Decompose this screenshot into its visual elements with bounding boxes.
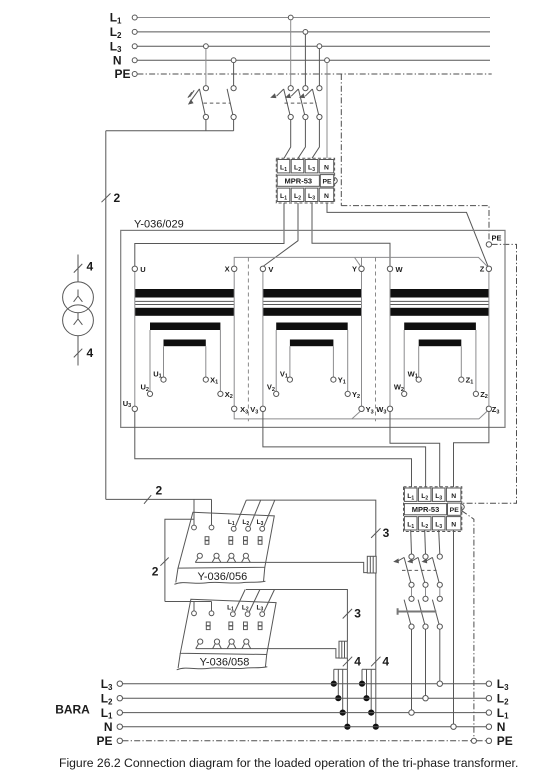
- wire U1-L2 to terminal V: [264, 203, 298, 266]
- Q2 arrowhead L1: [270, 93, 276, 98]
- relay MPR-53 U1 outline: [276, 158, 334, 203]
- wire V3 to U2-L2: [263, 412, 426, 488]
- rotor legs 058-4: [242, 644, 251, 649]
- terminal PE transformer: [486, 242, 491, 247]
- MPR-53 U2 name cell: [404, 504, 446, 515]
- wire riser X-X3: [233, 271, 235, 406]
- MPR-53 U1 terminal box bottom: [305, 188, 318, 201]
- wire fan bar 058: [334, 668, 348, 670]
- contact bottom Q3 x=439.8: [437, 582, 442, 587]
- wire L1 diagonal 058: [235, 590, 246, 613]
- wire Q1 output pair horizontal: [106, 130, 234, 132]
- input contact 2 058: [209, 611, 214, 616]
- rotor legs 056-4: [242, 558, 251, 563]
- transformer core 2 (V-Y): [263, 289, 362, 298]
- svg-text:Z3: Z3: [492, 405, 500, 415]
- slash 2-conductor at 056: [144, 495, 151, 504]
- contact bottom Q2 L1: [288, 114, 293, 119]
- wire U2 output to Q3 x=439.8: [439, 530, 440, 554]
- svg-text:X1: X1: [210, 375, 218, 385]
- terminal U: [132, 266, 137, 271]
- junction 058-L2: [335, 695, 341, 701]
- terminal W2: [402, 391, 407, 396]
- bus L3 top: [137, 45, 490, 47]
- wire U2 output to Q3 x=425.5: [424, 530, 427, 554]
- transformer core 3 (W-Z): [390, 289, 489, 298]
- wire L1 diagonal 056: [235, 500, 246, 527]
- svg-text:N: N: [451, 522, 456, 529]
- rotor legs 056-3: [227, 558, 236, 563]
- wire riser W-W3: [389, 271, 391, 406]
- terminal circle N top: [132, 58, 137, 63]
- tap changer Y-036/056 body: [178, 512, 274, 568]
- wire 058 fan to L3: [333, 669, 335, 683]
- bus L2 top: [137, 31, 490, 33]
- terminal Y2: [345, 391, 350, 396]
- wire Z2 lead: [475, 330, 477, 391]
- input contact 1 058: [192, 611, 197, 616]
- svg-text:Y3: Y3: [366, 405, 374, 415]
- switch blade Q1 pole x=205.9: [199, 89, 205, 115]
- svg-text:PE: PE: [450, 507, 460, 514]
- node tap N for Q1: [231, 58, 236, 63]
- svg-text:W2: W2: [394, 383, 404, 393]
- wire U1-N to terminal Z: [327, 203, 488, 266]
- svg-text:X2: X2: [225, 390, 233, 400]
- svg-text:PE: PE: [322, 179, 332, 186]
- svg-text:X3: X3: [240, 405, 248, 415]
- MPR-53 U1 terminal box bottom: [319, 188, 334, 201]
- transformer T1 enclosure: [121, 230, 505, 427]
- wire tap N down to Q1: [233, 63, 235, 86]
- PE hook at U1: [334, 177, 337, 184]
- svg-text:4: 4: [87, 346, 94, 360]
- Q3 arrow shaft x=411.5: [398, 557, 404, 561]
- switch blade Q4 x=411.5: [404, 600, 411, 625]
- wire V1 lead: [289, 346, 291, 377]
- terminal circle PE top: [132, 72, 137, 77]
- svg-text:N: N: [497, 720, 506, 734]
- terminal Z2: [473, 391, 478, 396]
- slash 4-conductor top: [74, 264, 83, 273]
- node tap L3 for Q2: [317, 44, 322, 49]
- contact bottom Q1 pole x=233.6: [231, 114, 236, 119]
- Q3 arrowhead: [407, 558, 413, 563]
- svg-text:L1: L1: [101, 706, 113, 721]
- terminal Y: [359, 266, 364, 271]
- wire fan bar 056: [362, 668, 376, 670]
- wire U1-L3 to terminal W: [312, 203, 390, 266]
- svg-text:L1: L1: [497, 706, 509, 721]
- rotor contact 1 058: [198, 639, 203, 644]
- contact stack 058 x=245.4: [244, 622, 248, 626]
- wire star branch to Y: [355, 257, 361, 266]
- slash 4-conductor 058: [343, 657, 352, 667]
- Q1 actuator flag line 2: [188, 92, 192, 98]
- switch blade Q2 L2: [298, 89, 304, 115]
- svg-text:L1: L1: [228, 519, 235, 527]
- wire tap L1 down to Q2: [290, 20, 292, 86]
- Q2 arrowhead L3: [299, 93, 305, 98]
- wire Q2 L1 to MPR-53 U1: [284, 120, 291, 159]
- svg-text:N: N: [324, 193, 329, 200]
- switch blade Q2 L1: [284, 89, 290, 115]
- wire L2 diagonal 056: [250, 500, 261, 527]
- wire 056 fan to L2: [366, 669, 368, 698]
- wire 056 fan to L1: [370, 669, 372, 712]
- MPR-53 U2 terminal box top L<tspa: [418, 488, 431, 501]
- svg-text:L2: L2: [242, 519, 249, 527]
- wire U2 N to bus N: [453, 530, 455, 724]
- svg-text:N: N: [104, 720, 113, 734]
- bus N top: [137, 59, 490, 61]
- wire N down to MPR-53 U1: [326, 63, 328, 159]
- terminal circle L2 bottom left: [117, 696, 122, 701]
- bus L2 bottom: [123, 697, 487, 699]
- terminal X2: [218, 391, 223, 396]
- contact top Q2 L3: [317, 86, 322, 91]
- wire 056 fan to L3: [361, 669, 363, 683]
- Q1 actuator arrowhead: [188, 99, 194, 104]
- contact top Q3 x=425.5: [423, 554, 428, 559]
- tap changer Y-036/058 body: [180, 599, 276, 654]
- switch blade Q3 x=425.5: [418, 557, 425, 582]
- MPR-53 U1 terminal box top N: [319, 160, 334, 173]
- terminal V2: [274, 391, 279, 396]
- svg-text:Y2: Y2: [352, 390, 360, 400]
- phase contact L3 058: [260, 612, 265, 617]
- PE drop to U1: [340, 74, 342, 206]
- junction 058-L3: [331, 681, 337, 687]
- phase contact L1 058: [231, 612, 236, 617]
- terminal Z: [486, 266, 491, 271]
- svg-text:Figure 26.2 Connection diagram: Figure 26.2 Connection diagram for the l…: [59, 756, 518, 770]
- svg-text:U1: U1: [153, 369, 161, 379]
- contact stack 056 x=245.4: [244, 537, 248, 541]
- wire W1 lead: [418, 346, 420, 377]
- wire U1 lead: [163, 346, 165, 377]
- terminal circle L3 top: [132, 44, 137, 49]
- slash 3-conductor 056: [371, 528, 380, 538]
- svg-text:V3: V3: [250, 405, 258, 415]
- Q2 arrow shaft L2: [291, 89, 298, 96]
- switch blade Q4 x=439.8: [432, 600, 439, 625]
- wire riser V-V3: [262, 271, 264, 406]
- bus PE bottom end: [477, 740, 487, 742]
- contact bottom Q4 x=411.5: [409, 624, 414, 629]
- svg-text:PE: PE: [492, 234, 502, 243]
- node tap N for U1: [325, 58, 330, 63]
- contact stack 056 x=230.8: [229, 537, 233, 541]
- MPR-53 U2 terminal box top L<tspa: [404, 488, 417, 501]
- slash 4-conductor bottom: [74, 349, 83, 358]
- wire 2-pair into Y-036/058: [165, 601, 212, 603]
- terminal W: [387, 266, 392, 271]
- Q3 arrowhead: [393, 558, 399, 563]
- connection PE bottom: [471, 738, 476, 743]
- wire rotor rail 056 to connector X1: [195, 562, 367, 572]
- MPR-53 U2 terminal box top N: [446, 488, 461, 501]
- svg-text:U3: U3: [123, 399, 131, 409]
- wire star branch to Y3: [352, 412, 360, 419]
- svg-text:2: 2: [152, 565, 159, 579]
- rotor contact 2 058: [214, 639, 219, 644]
- svg-text:Y-036/056: Y-036/056: [198, 571, 248, 583]
- terminal U2: [147, 391, 152, 396]
- MPR-53 U1 terminal box top L<tspa: [305, 160, 318, 173]
- contact top Q3 x=439.8: [437, 554, 442, 559]
- meter M1 circle 2: [63, 305, 94, 336]
- svg-text:4: 4: [382, 654, 389, 668]
- wire 4-bundle 058 down: [346, 658, 348, 669]
- Q3 arrowhead: [422, 558, 428, 563]
- MPR-53 U2 terminal box bottom: [404, 517, 417, 530]
- connection Q4 pole1 L1: [409, 710, 414, 715]
- terminal Y1: [331, 377, 336, 382]
- tap changer Y-036/056 wavy bottom: [174, 581, 265, 584]
- svg-text:MPR-53: MPR-53: [285, 177, 313, 186]
- wire V2 lead: [275, 330, 277, 391]
- wire 058 fan to N: [346, 669, 348, 726]
- wire tap L2 down to Q2: [304, 34, 306, 85]
- svg-text:L2: L2: [497, 692, 509, 707]
- wire U1-L1 to terminal U: [135, 203, 284, 266]
- PE drop to bottom bus: [462, 511, 474, 738]
- terminal U3: [132, 406, 137, 411]
- Q4 coupling bar: [398, 608, 437, 614]
- contact bottom Q3 x=411.5: [409, 582, 414, 587]
- bus L1 bottom: [123, 712, 487, 714]
- svg-text:L2: L2: [101, 692, 113, 707]
- input contact 1 056: [192, 525, 197, 530]
- wire Q3-Q4 link x=411.5: [411, 587, 413, 596]
- junction 056-L3: [359, 681, 365, 687]
- terminal X1: [203, 377, 208, 382]
- svg-text:3: 3: [383, 526, 390, 540]
- rotor contact 1 056: [197, 553, 202, 558]
- svg-text:Y: Y: [352, 265, 357, 274]
- wire Q2 L3 to MPR-53 U1: [312, 120, 319, 159]
- slash 2-conductor mark: [102, 193, 111, 202]
- wire Y1 lead: [332, 346, 334, 377]
- wire drop input1 056: [193, 499, 195, 525]
- svg-text:L1: L1: [227, 604, 234, 612]
- wire W2 lead: [403, 330, 405, 391]
- wire Q3-Q4 link x=425.5: [425, 587, 427, 596]
- svg-text:BARA: BARA: [55, 703, 90, 717]
- wire Y2 lead: [347, 330, 349, 391]
- terminal V1: [287, 377, 292, 382]
- svg-text:Z2: Z2: [480, 390, 488, 400]
- wire 4-bundle 056 down: [375, 573, 377, 669]
- svg-text:2: 2: [156, 483, 163, 497]
- tap changer Y-036/056 front face: [176, 567, 265, 582]
- terminal circle L3 bottom left: [117, 681, 122, 686]
- connector X1: [367, 556, 376, 573]
- rotor legs 056-2: [212, 558, 221, 563]
- wire Q4 pole1 to bus L1: [411, 629, 413, 710]
- svg-text:PE: PE: [96, 734, 112, 748]
- svg-text:L3: L3: [110, 39, 122, 54]
- contact top Q2 L2: [303, 86, 308, 91]
- terminal circle N bottom right: [486, 724, 491, 729]
- terminal U1: [161, 377, 166, 382]
- node tap L3 for Q1: [204, 44, 209, 49]
- wire tap L3 down to Q2: [318, 49, 320, 86]
- phase contact L2 058: [245, 612, 250, 617]
- MPR-53 U2 terminal box bottom: [432, 517, 445, 530]
- wire Q1 pole2 down: [233, 120, 235, 131]
- MPR-53 U2 terminal box bottom: [418, 517, 431, 530]
- terminal circle PE bottom right: [486, 738, 491, 743]
- connection N bottom: [451, 724, 456, 729]
- svg-text:Z1: Z1: [466, 375, 474, 385]
- Q1 coupling dashed: [204, 102, 231, 104]
- svg-text:4: 4: [87, 259, 94, 273]
- winding glyph 2: [74, 313, 83, 325]
- wire L3 diagonal 058: [264, 590, 275, 613]
- winding glyph 1: [74, 290, 83, 302]
- wire Z3 to U2-N: [454, 412, 489, 488]
- tap changer Y-036/058 wavy bottom: [177, 667, 268, 670]
- svg-text:V1: V1: [280, 369, 288, 379]
- svg-text:L3: L3: [101, 677, 113, 692]
- wire riser Y-Y3: [361, 271, 363, 406]
- phase contact L1 056: [231, 526, 236, 531]
- terminal circle PE bottom left: [117, 738, 122, 743]
- Q2 coupling dashed: [285, 102, 317, 104]
- wire drop input1 058: [193, 602, 195, 611]
- svg-text:4: 4: [354, 654, 361, 668]
- wire W3 to U2-L3: [390, 412, 440, 488]
- slash 4-conductor 056: [371, 657, 380, 667]
- svg-text:N: N: [451, 493, 456, 500]
- terminal circle N bottom left: [117, 724, 122, 729]
- svg-text:MPR-53: MPR-53: [412, 505, 440, 514]
- svg-text:Z: Z: [480, 265, 485, 274]
- Q3 arrow shaft x=439.8: [426, 557, 432, 561]
- contact stack 058 x=230.8: [229, 622, 233, 626]
- contact stack 056 x=260.1: [258, 537, 262, 541]
- wire 058 fan to L2: [337, 669, 339, 698]
- rotor legs 058-3: [227, 644, 236, 649]
- wire Q2 L2 to MPR-53 U1: [298, 120, 305, 159]
- junction 056-L1: [368, 710, 374, 716]
- MPR-53 U2 terminal box top L<tspa: [432, 488, 445, 501]
- rotor contact 2 056: [214, 553, 219, 558]
- rotor leg 058-1: [196, 644, 199, 649]
- svg-text:PE: PE: [497, 734, 513, 748]
- Q2 arrow shaft L1: [277, 89, 284, 96]
- svg-text:2: 2: [114, 191, 121, 205]
- wire U3 to U2-L1: [135, 412, 412, 488]
- contact bottom Q4 x=425.5: [423, 624, 428, 629]
- wire X2 lead: [219, 330, 221, 391]
- wire 3-bundle 056 to connector: [246, 500, 375, 556]
- wire X1 lead: [205, 346, 207, 377]
- junction 058-L1: [340, 710, 346, 716]
- connection Q4 pole3 L3: [437, 681, 442, 686]
- tap changer Y-036/058 front face: [178, 653, 267, 668]
- wire L2 diagonal 058: [249, 590, 260, 613]
- bus L3 bottom: [123, 683, 487, 685]
- wire 056 fan to N: [375, 669, 377, 726]
- node tap L2 for Q2: [303, 30, 308, 35]
- contact top Q1 pole x=233.6: [231, 86, 236, 91]
- wire Z1 lead: [460, 346, 462, 377]
- Q3 arrow shaft x=425.5: [412, 557, 418, 561]
- terminal X: [232, 266, 237, 271]
- wire U2 lead: [149, 330, 151, 391]
- contact stack 056 x=207.0: [205, 537, 209, 541]
- connector X2: [339, 641, 347, 658]
- svg-text:L3: L3: [257, 519, 264, 527]
- wire meter bottom: [77, 336, 79, 366]
- rotor contact 3 058: [229, 639, 234, 644]
- wire 2-conductor left drop: [105, 131, 107, 500]
- terminal V: [260, 266, 265, 271]
- wire riser U-U3: [134, 271, 136, 406]
- contact top Q4 x=439.8: [437, 596, 442, 601]
- wire 3-bundle 058 to connector: [246, 590, 348, 642]
- rotor legs 058-2: [213, 644, 222, 649]
- wire star top X-Y-Z: [234, 257, 487, 266]
- svg-text:L3: L3: [257, 604, 264, 612]
- terminal W3: [387, 406, 392, 411]
- wire 058 fan to L1: [342, 669, 344, 712]
- terminal X3: [232, 406, 237, 411]
- transformer core 1 (U-X): [135, 289, 234, 298]
- wire drop input2 058: [211, 602, 213, 611]
- slash 3-conductor 058: [343, 609, 352, 619]
- svg-text:W1: W1: [408, 369, 418, 379]
- junction 058-N: [344, 724, 350, 730]
- slash 2-conductor 058: [160, 558, 168, 566]
- contact top Q3 x=411.5: [409, 554, 414, 559]
- Q2 arrowhead L2: [285, 93, 291, 98]
- MPR-53 U2 terminal box bottom: [446, 517, 461, 530]
- wire riser Z-Z3: [488, 271, 490, 406]
- wire U2 output to Q3 x=411.5: [410, 530, 413, 554]
- meter M1 circle 1: [63, 282, 94, 313]
- MPR-53 U2 PE box: [448, 503, 461, 515]
- svg-text:L2: L2: [242, 604, 249, 612]
- wire rotor rail 058 to connector X2: [196, 649, 339, 658]
- contact bottom Q3 x=425.5: [423, 582, 428, 587]
- Q3 coupling dashed: [402, 569, 437, 571]
- terminal circle L2 bottom right: [486, 696, 491, 701]
- divider core2/core3: [375, 258, 377, 422]
- PE right side down: [463, 244, 517, 503]
- terminal Z1: [459, 377, 464, 382]
- terminal circle L1 top: [132, 15, 137, 20]
- PE hook at U2: [461, 504, 464, 511]
- terminal V3: [260, 406, 265, 411]
- Q1 actuator shaft: [191, 89, 199, 101]
- bus L1 top: [137, 17, 490, 19]
- wire tap L3 down to Q1: [205, 49, 207, 86]
- svg-text:L2: L2: [110, 25, 122, 40]
- contact top Q1 pole x=205.9: [203, 86, 208, 91]
- bus PE bottom: [123, 740, 472, 742]
- contact bottom Q1 pole x=205.9: [203, 114, 208, 119]
- contact bottom Q2 L2: [303, 114, 308, 119]
- bus PE top: [137, 73, 491, 75]
- switch blade Q1 pole x=233.6: [227, 89, 233, 115]
- contact bottom Q4 x=439.8: [437, 624, 442, 629]
- terminal Z3: [486, 406, 491, 411]
- svg-text:N: N: [324, 165, 329, 172]
